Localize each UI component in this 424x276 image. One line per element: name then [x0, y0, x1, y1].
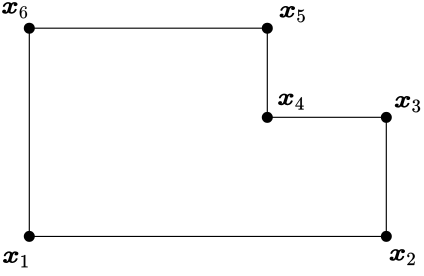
wire edge x5-x6 [29, 27, 267, 29]
label x4 [279, 94, 293, 105]
wire edge x4-x5 [266, 28, 268, 117]
wire edge x2-x3 [385, 117, 387, 236]
label x5 [280, 6, 294, 17]
node x5 (vertex dot) [262, 23, 273, 34]
label x6 [3, 3, 17, 14]
node x1 (vertex dot) [24, 231, 35, 242]
label x3 [395, 96, 409, 107]
node x3 (vertex dot) [381, 112, 392, 123]
wire edge x1-x2 [29, 235, 386, 237]
label x1 [4, 252, 18, 263]
wire edge x6-x1 [28, 28, 30, 236]
node x2 (vertex dot) [381, 231, 392, 242]
node x6 (vertex dot) [24, 23, 35, 34]
node x4 (vertex dot) [262, 112, 273, 123]
label x2 [390, 250, 404, 261]
wire edge x3-x4 [267, 116, 386, 118]
